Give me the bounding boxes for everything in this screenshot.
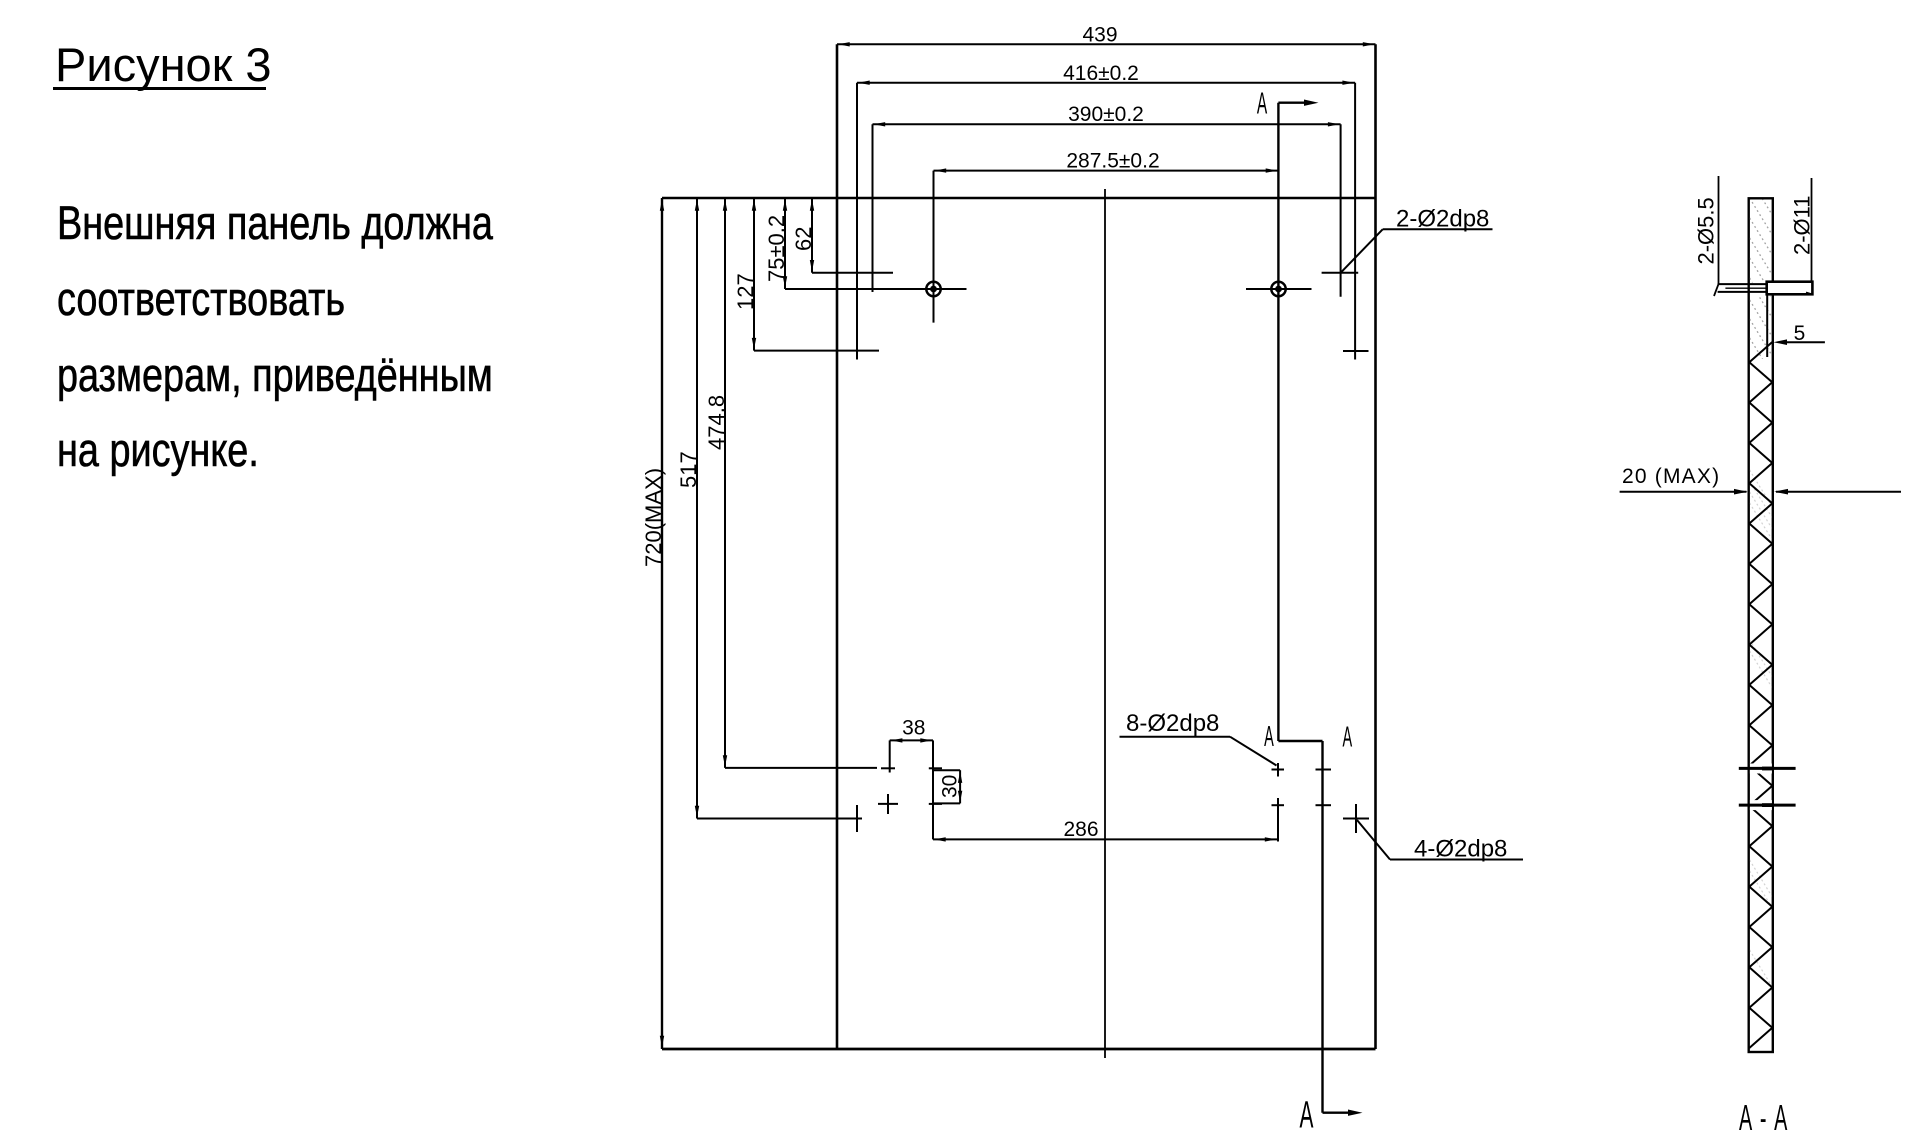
dim 286 right extension [1277,798,1279,842]
svg-text:75±0.2: 75±0.2 [764,215,789,282]
hole centre line [1725,287,1796,289]
dim vertical 127 [753,198,755,351]
svg-text:439: 439 [1082,24,1117,47]
section small hole lower [1739,804,1796,807]
leader 4-Ø2dp8 [1357,820,1390,860]
hole cross 4-Ø2 bottom-right [1343,818,1369,820]
svg-text:на рисунке.: на рисунке. [57,424,259,477]
hole cross 8-Ø2 isolated (888,804) [878,803,898,805]
dim 2-Ø11 extension [1811,178,1813,282]
svg-text:A: A [1257,87,1268,121]
label 127 [733,273,758,310]
svg-text:2-Ø5.5: 2-Ø5.5 [1694,197,1719,264]
svg-text:62: 62 [791,227,816,251]
letter A bottom [1300,1094,1314,1136]
svg-text:соответствовать: соответствовать [57,273,345,326]
section line A-A through panel [1278,103,1349,1113]
dim 2-Ø5.5 extension [1718,176,1720,284]
svg-text:474.8: 474.8 [704,395,729,450]
insulation zig-zag [1749,342,1772,1048]
label 720(MAX) [641,468,666,567]
hole cross 8-Ø2 (1322.5,804) bar [1316,804,1332,806]
svg-text:8-Ø2dp8: 8-Ø2dp8 [1126,710,1219,737]
inner face offset line [1766,294,1768,357]
arrow head top A [1304,100,1319,106]
svg-text:38: 38 [902,717,925,740]
extension line 416 right [1354,83,1356,360]
hole cross 2-Ø2 right [1322,272,1359,274]
panel outline right edge [1374,44,1377,1049]
dim 38 line [890,739,933,741]
dim 30 ticks and line [933,769,960,771]
svg-text:5: 5 [1794,322,1806,345]
extension 474.8 horizontal [725,767,877,769]
letter A top [1257,87,1268,121]
dim vertical 517 [696,198,698,819]
dim line 439 [837,43,1376,45]
note paragraph [57,197,493,477]
leader 8-Ø2dp8 [1120,736,1231,738]
dim 286 line [933,838,1278,840]
panel inner vertical line [836,44,839,1049]
hole cross 4-Ø2 bottom-left vertical [856,805,858,832]
letter A mid-right [1343,720,1353,753]
label 62 [791,227,816,251]
extension line 390 right [1340,124,1342,296]
svg-text:20 (MAX): 20 (MAX) [1622,465,1720,488]
dim vertical 62 [811,198,813,273]
svg-text:517: 517 [676,451,701,488]
dim line 287.5±0.2 [934,170,1279,172]
svg-text:390±0.2: 390±0.2 [1068,103,1144,126]
svg-text:416±0.2: 416±0.2 [1063,62,1139,85]
extension line 390 left [872,124,874,292]
panel outline bottom edge [662,1048,1376,1051]
svg-text:A: A [1264,719,1274,752]
label A - A [1739,1099,1789,1139]
label 517 [676,451,701,488]
svg-text:A: A [1300,1094,1314,1136]
section small hole upper [1739,767,1796,770]
svg-text:286: 286 [1063,818,1098,841]
title Рисунок 3 [55,38,271,91]
svg-text:Внешняя панель должна: Внешняя панель должна [57,197,493,250]
hole cross 8-Ø2 (1322.5,767) bar [1316,769,1332,771]
hole cross 8-Ø2 (933,804) bar [929,803,942,805]
hole depth fill upper [1762,767,1773,771]
datum hole right (circle target) [1271,282,1285,296]
label 75±0.2 [764,215,789,282]
dim 38 side verticals [889,740,891,772]
svg-text:размерам, приведённым: размерам, приведённым [57,349,493,402]
label 474.8 [704,395,729,450]
grey hatch upper [1750,158,1772,315]
hole depth fill lower [1762,803,1773,807]
dim 20 (MAX) [1620,491,1747,493]
datum hole left (circle target) [926,282,940,296]
grey hatch lines lower (faint) [1750,470,1772,987]
arrow head bottom A [1348,1110,1363,1116]
grey hatch below hole [1750,262,1772,375]
svg-text:2-Ø2dp8: 2-Ø2dp8 [1396,205,1489,232]
dim vertical 474.8 [724,198,726,768]
hole cross 8-Ø2 (890,768) bar [881,767,895,769]
svg-text:A: A [1343,720,1353,753]
title underline [53,87,266,90]
hole cross 8-Ø2 (1278,804) bar [1272,804,1285,806]
svg-text:30: 30 [939,775,962,798]
dim line 416±0.2 [857,82,1355,84]
Ø5.5 hole slot lines [1718,283,1767,285]
panel centre line [1104,189,1106,1058]
panel outline top edge [662,197,1376,200]
dim vertical 75±0.2 [784,198,786,289]
dots at dim column tops and bends [660,199,664,211]
extension line 416 left [856,83,858,360]
hole cross 8-Ø2 (933,768) bar [929,767,942,769]
Ø11 counterbore box [1767,282,1813,295]
svg-text:A - A: A - A [1739,1099,1789,1139]
hole cross 4-Ø2 top-right bar [1343,350,1369,352]
svg-text:720(MAX): 720(MAX) [641,468,666,567]
svg-text:127: 127 [733,273,758,310]
extension 75 horizontal through datum hole [785,288,967,290]
svg-text:Рисунок 3: Рисунок 3 [55,38,271,91]
svg-text:4-Ø2dp8: 4-Ø2dp8 [1414,836,1507,863]
white gaps at small holes [1750,764,1772,774]
svg-text:2-Ø11: 2-Ø11 [1790,195,1815,255]
section bar outline [1749,198,1773,1052]
extension 517 horizontal [697,818,862,820]
leader 2-Ø2dp8 [1341,229,1383,273]
extension 62 horizontal [812,272,893,274]
svg-text:287.5±0.2: 287.5±0.2 [1066,149,1159,172]
extension 127 horizontal [754,350,879,352]
dim 5 [1785,341,1825,343]
panel outline left edge / 720 dim line [661,198,663,1049]
letter A mid-left [1264,719,1274,752]
dim line 390±0.2 [873,123,1341,125]
hole cross 8-Ø2 (1278,767) [1272,769,1285,771]
